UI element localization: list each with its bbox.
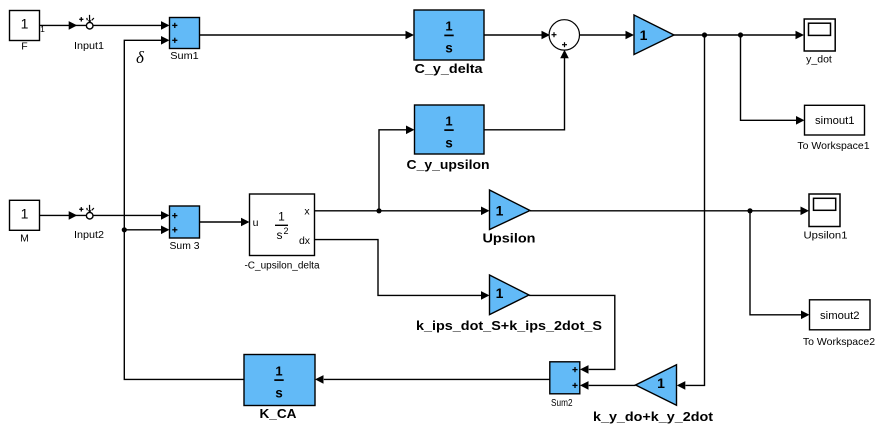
- svg-text:Sum2: Sum2: [551, 398, 573, 409]
- wire C_y_delta to sum circle: [484, 34, 542, 36]
- wire sum circle to gain1: [579, 34, 626, 36]
- wire gain1 to scope y_dot: [674, 34, 796, 36]
- junction dot C: [376, 208, 381, 213]
- wire dx output to k_ips gain: [315, 240, 482, 296]
- svg-text:s: s: [445, 135, 453, 150]
- svg-text:x: x: [304, 205, 310, 217]
- svg-text:F: F: [21, 41, 27, 53]
- svg-text:simout1: simout1: [815, 115, 855, 127]
- sum block Sum2: [550, 362, 580, 409]
- svg-text:u: u: [253, 217, 259, 229]
- long feedback wire from node A down to k_y gain: [686, 35, 705, 385]
- wire Upsilon to scope Upsilon1: [530, 210, 801, 212]
- svg-text:1: 1: [496, 202, 504, 218]
- svg-text:1: 1: [496, 285, 504, 301]
- svg-text:-C_upsilon_delta: -C_upsilon_delta: [244, 260, 319, 271]
- svg-text:K_CA: K_CA: [260, 406, 298, 421]
- svg-text:C_y_upsilon: C_y_upsilon: [407, 157, 490, 172]
- svg-text:M: M: [20, 233, 29, 245]
- gain k_y_do+k_y_2dot (left pointing): [593, 365, 714, 424]
- wire k_y gain to Sum2 bottom input: [589, 384, 636, 386]
- svg-text:Input2: Input2: [74, 229, 104, 241]
- scope Upsilon1: [804, 194, 848, 241]
- svg-text:k_y_do+k_y_2dot: k_y_do+k_y_2dot: [593, 409, 714, 424]
- sum junction circle: [549, 20, 579, 50]
- wire F to Sum1: [40, 24, 162, 26]
- svg-text:δ: δ: [136, 48, 145, 67]
- integrator K_CA: [244, 355, 315, 422]
- wire Sum 3 to -C_upsilon_delta: [200, 221, 242, 223]
- junction dot A: [702, 32, 707, 37]
- svg-text:1: 1: [445, 19, 452, 34]
- wire Sum2 output to K_CA: [324, 378, 550, 380]
- wire M to Sum 3: [40, 214, 162, 216]
- junction dot D: [747, 208, 752, 213]
- to-workspace block simout1: [797, 105, 869, 152]
- junction dot E: [122, 227, 127, 232]
- scope y_dot: [804, 19, 835, 65]
- svg-text:Sum 3: Sum 3: [170, 240, 200, 252]
- wire Sum1 to C_y_delta: [200, 34, 406, 36]
- source block F: [10, 11, 40, 53]
- svg-text:C_y_delta: C_y_delta: [415, 61, 484, 76]
- wire node C up to C_y_upsilon: [379, 130, 406, 211]
- integrator C_y_delta: [414, 10, 484, 76]
- svg-text:simout2: simout2: [820, 310, 860, 322]
- gain Upsilon: [483, 190, 536, 246]
- svg-text:To Workspace1: To Workspace1: [797, 140, 869, 152]
- svg-text:y_dot: y_dot: [806, 53, 832, 65]
- svg-text:s: s: [275, 385, 283, 400]
- svg-text:Sum1: Sum1: [170, 50, 199, 62]
- svg-text:Input1: Input1: [74, 40, 104, 52]
- sum block Sum 3: [170, 206, 200, 252]
- wire node E to Sum 3 bottom input: [124, 229, 161, 231]
- svg-text:1: 1: [21, 206, 29, 222]
- svg-text:k_ips_dot_S+k_ips_2dot_S: k_ips_dot_S+k_ips_2dot_S: [416, 318, 602, 333]
- to-workspace block simout2: [803, 300, 875, 348]
- svg-text:2: 2: [283, 226, 288, 236]
- svg-text:Upsilon1: Upsilon1: [804, 229, 848, 241]
- svg-text:s: s: [445, 41, 453, 56]
- wire k_ips gain to Sum2 top input: [529, 295, 615, 369]
- svg-text:To Workspace2: To Workspace2: [803, 336, 875, 348]
- svg-text:1: 1: [657, 375, 665, 391]
- test point icon Input1: [69, 15, 94, 30]
- wire to simout1: [741, 35, 797, 120]
- double integrator -C_upsilon_delta: [244, 194, 319, 271]
- integrator C_y_upsilon: [407, 105, 490, 172]
- gain k_ips_dot_S+k_ips_2dot_S: [416, 275, 602, 333]
- svg-text:s: s: [277, 228, 283, 242]
- svg-text:1: 1: [21, 16, 29, 32]
- svg-text:1: 1: [275, 363, 282, 378]
- svg-text:Upsilon: Upsilon: [483, 231, 536, 246]
- wire node D to simout2: [750, 211, 801, 315]
- wire x output to Upsilon gain: [315, 210, 482, 212]
- sum block Sum1: [170, 18, 200, 62]
- wire C_y_upsilon to sum circle bottom: [484, 58, 565, 130]
- svg-text:1: 1: [640, 27, 648, 43]
- test point icon Input2: [69, 205, 94, 220]
- svg-text:1: 1: [278, 210, 285, 224]
- feedback wire K_CA output up to Sum1: [124, 40, 244, 379]
- source block M: [10, 200, 40, 244]
- junction dot B: [738, 32, 743, 37]
- svg-text:1: 1: [445, 113, 452, 128]
- gain block 1 (top): [634, 15, 674, 55]
- svg-text:dx: dx: [299, 235, 311, 247]
